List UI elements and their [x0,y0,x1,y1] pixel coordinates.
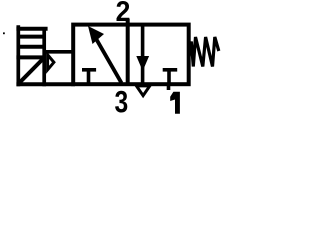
3/2-way solenoid pilot valve schematic [0,0,236,118]
left box arrowhead [88,26,104,44]
valve body outline [73,25,189,85]
right box down arrowhead [136,56,149,71]
left box flow arrow (shaft) [95,36,122,83]
spring (return) [189,37,219,67]
left box blocked port T [82,68,96,72]
actuator right vertical bar [42,27,46,86]
exhaust triangle at port 3 [136,86,149,96]
port 1 stub [167,84,171,90]
solenoid box bottom edge / bottom connection line [16,82,75,86]
label port 3 [115,91,127,113]
actuator rung 3 [18,45,44,49]
actuator top bar [16,27,47,31]
actuator left vertical bar [16,25,20,86]
right box blocked port T [163,68,178,72]
solenoid box top edge [16,55,46,59]
pilot connection line to body [44,50,73,54]
right box flow line 2->3 [141,25,145,85]
label port 1 [170,92,180,114]
pilot triangle [48,55,54,70]
valve position divider / port 2 line [126,19,130,85]
label port 2 [117,1,130,21]
actuator rung 2 [18,35,44,39]
solenoid diagonal [18,58,44,85]
